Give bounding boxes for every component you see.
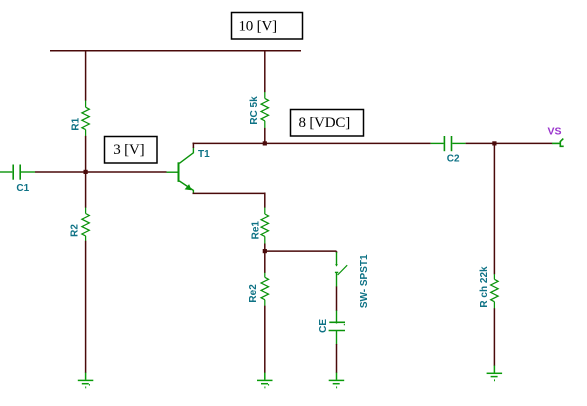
label VS	[548, 126, 562, 138]
wire collector stub	[192, 143, 194, 148]
voltage label box 3 [V]	[105, 137, 158, 164]
label Rch 22k	[479, 266, 490, 308]
output terminal VS	[552, 139, 564, 147]
capacitor CE	[329, 311, 345, 345]
wire R1 to base node	[85, 136, 87, 172]
switch top contact tip	[335, 264, 338, 266]
wire R2 to ground	[85, 241, 87, 373]
wire right node to Rch	[493, 143, 495, 274]
wire R2 top	[85, 172, 87, 208]
label R1	[70, 117, 81, 130]
ground (middle right)	[329, 373, 345, 388]
svg-text:RC 5k: RC 5k	[249, 96, 260, 125]
svg-text:T1: T1	[198, 149, 210, 160]
voltage source label box 10 [V]	[232, 13, 303, 40]
svg-text:R1: R1	[70, 117, 81, 130]
svg-text:Re2: Re2	[248, 284, 259, 303]
wire emitter to Re1	[264, 193, 266, 208]
svg-text:10 [V]: 10 [V]	[239, 19, 277, 35]
resistor Rch 22k	[491, 274, 498, 309]
svg-text:R ch 22k: R ch 22k	[479, 266, 490, 308]
label CE	[318, 319, 329, 333]
wire C2 to right node	[466, 142, 553, 144]
power rail VCC	[50, 50, 301, 52]
label Re1	[250, 221, 261, 240]
svg-text:3 [V]: 3 [V]	[113, 142, 144, 158]
node right junction	[492, 141, 496, 145]
node emitter junction	[263, 249, 267, 253]
ground (left)	[78, 373, 94, 388]
wire emitter node to switch	[265, 251, 337, 253]
resistor RC 5k	[261, 92, 268, 128]
wire CE to ground	[336, 344, 338, 373]
svg-text:SW- SPST1: SW- SPST1	[359, 254, 370, 308]
capacitor C2	[431, 136, 466, 151]
resistor R1	[82, 101, 89, 137]
resistor Re1	[261, 208, 268, 244]
wire Rch to ground	[493, 308, 495, 366]
wire node to Re2	[264, 251, 266, 273]
svg-text:C2: C2	[447, 153, 460, 164]
label Re2	[248, 284, 259, 303]
wire collector horizontal	[193, 142, 431, 144]
wire Re2 to ground	[264, 306, 266, 373]
svg-text:CE: CE	[318, 319, 329, 333]
svg-text:8 [VDC]: 8 [VDC]	[299, 115, 351, 131]
label RC 5k	[249, 96, 260, 125]
node collector junction	[263, 141, 267, 145]
svg-text:R2: R2	[70, 224, 81, 237]
wire RC to collector node	[264, 128, 266, 143]
svg-text:VS: VS	[548, 126, 562, 138]
wire rail to R1	[85, 50, 87, 101]
label T1	[198, 149, 210, 160]
transistor T1	[167, 147, 194, 193]
label R2	[70, 224, 81, 237]
ground (right)	[487, 366, 503, 381]
svg-text:C1: C1	[16, 183, 29, 194]
resistor Re2	[261, 273, 268, 306]
svg-text:Re1: Re1	[250, 221, 261, 240]
wire rail to RC	[264, 50, 266, 92]
voltage label box 8 [VDC]	[291, 110, 364, 137]
ground (middle)	[257, 373, 273, 388]
label C1	[16, 183, 29, 194]
label C2	[447, 153, 460, 164]
transistor T1 emitter arrow	[185, 184, 192, 190]
label SW-SPST1	[359, 254, 370, 308]
wire C1 to node to base	[35, 171, 167, 173]
switch SW-SPST1	[335, 252, 347, 287]
wire emitter horizontal	[193, 192, 265, 194]
capacitor C1	[0, 165, 35, 180]
wire Re1 to emitter node	[264, 244, 266, 252]
wire switch to CE	[336, 287, 338, 312]
resistor R2	[82, 208, 89, 242]
node base junction	[84, 170, 88, 174]
